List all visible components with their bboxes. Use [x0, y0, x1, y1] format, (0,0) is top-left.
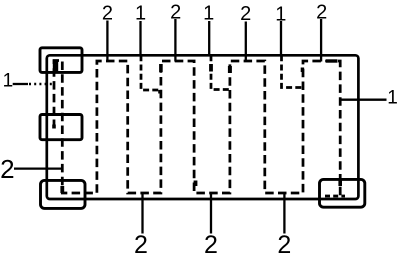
svg-text:1: 1: [387, 88, 398, 109]
leader line for top label 2 (x=321): [320, 19, 322, 62]
svg-text:2: 2: [277, 231, 291, 259]
terminal electrode T4 (bottom-right): [320, 179, 365, 207]
ink blot on n-top near x=330: [326, 59, 338, 62]
ink blot on electrode near x=161: [159, 64, 163, 72]
leader line for right label 1: [341, 99, 387, 101]
svg-text:1: 1: [3, 71, 14, 92]
terminal electrode T3 (bottom-left): [41, 180, 86, 208]
leader line for top label 2 (x=175): [174, 19, 176, 62]
leader line for bottom label 2 (x=284): [283, 194, 285, 234]
ink blot at bottom x=196: [194, 181, 198, 187]
leader line for top label 2 (x=107): [106, 21, 108, 62]
ink blot at bottom x=62: [60, 186, 64, 193]
ink blot on descender x=211: [209, 64, 213, 72]
leader line for bottom label 2 (x=211): [210, 194, 212, 234]
leader line for top label 1 (x=209): [208, 21, 210, 55]
terminal electrode T1 (top-left): [40, 48, 82, 73]
internal electrode 1: descender x=141 with link at y=90: [141, 55, 161, 90]
ink blot hook at end of link y=90: [158, 90, 161, 94]
ink blot tip of riser x=54 in T2: [52, 125, 56, 129]
svg-text:2: 2: [170, 1, 181, 23]
svg-text:1: 1: [203, 2, 214, 24]
svg-text:1: 1: [275, 4, 286, 26]
ink blot on leg x=302: [301, 68, 304, 73]
internal electrode 1: stub inside T4: [325, 195, 345, 198]
terminal electrode T2 (middle-left): [40, 115, 82, 140]
leader line for top label 1 (x=140): [139, 21, 141, 55]
ink blot on electrode near x=230: [228, 66, 232, 73]
leader line for left label 2: [14, 167, 61, 169]
internal electrode 1: descender x=281.5 with link at y=87.5: [282, 55, 304, 87]
svg-text:2: 2: [102, 2, 113, 24]
ink blot in T4: [338, 180, 342, 186]
svg-text:1: 1: [135, 2, 146, 24]
leader line for bottom label 2 (x=142): [141, 194, 143, 234]
leader line for top label 2 (x=246): [245, 22, 247, 62]
leader line for left label 1: [13, 83, 28, 85]
internal electrode 1: descender x=211 with link at y=89.5: [211, 55, 230, 89]
ink blot inside T1: [53, 60, 58, 73]
internal electrode 2: serpentine meander (dashed, hidden): [54, 61, 340, 198]
leader line for top label 1 (x=281): [280, 21, 282, 55]
svg-text:2: 2: [240, 3, 251, 25]
svg-text:2: 2: [316, 2, 327, 24]
svg-text:2: 2: [0, 154, 14, 184]
svg-text:2: 2: [134, 231, 148, 259]
chip body outline: [47, 55, 359, 199]
svg-text:2: 2: [204, 231, 218, 259]
